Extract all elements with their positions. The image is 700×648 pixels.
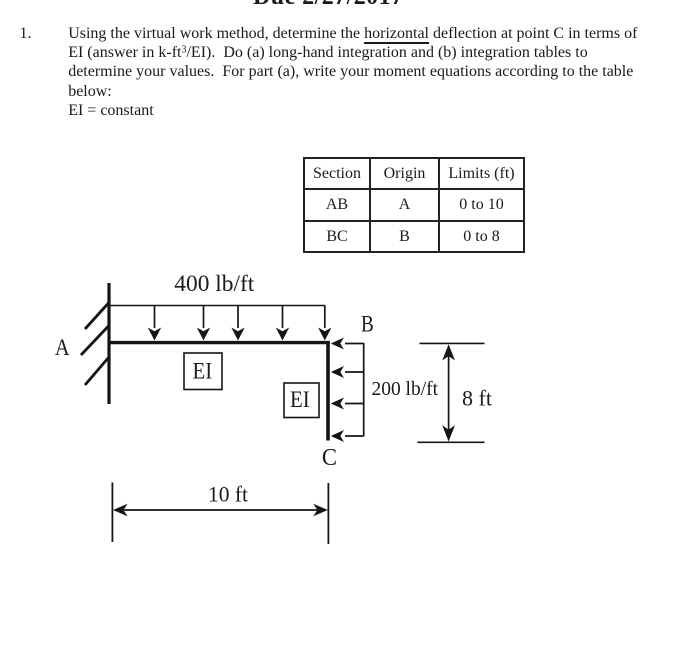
label 200 lb/ft — [372, 378, 439, 400]
load arrow 1 — [148, 306, 161, 341]
svg-text:200 lb/ft: 200 lb/ft — [372, 378, 439, 400]
load arrow 5 — [318, 306, 331, 341]
label 400 lb/ft — [174, 271, 255, 296]
side load arrow 2 — [331, 366, 364, 378]
EI box 1 — [184, 353, 222, 390]
side load arrow 1 — [331, 338, 364, 350]
svg-text:A: A — [55, 335, 70, 360]
svg-text:8 ft: 8 ft — [462, 386, 492, 411]
svg-text:10 ft: 10 ft — [208, 482, 248, 507]
svg-text:EI: EI — [290, 387, 310, 412]
10 ft dim right tick — [327, 483, 329, 544]
svg-text:400 lb/ft: 400 lb/ft — [174, 271, 255, 296]
load arrow 2 — [197, 306, 210, 341]
label A — [55, 335, 70, 360]
label 8 ft — [462, 386, 492, 411]
problem statement paragraph — [68, 24, 637, 120]
table of sections/origins/limits — [303, 157, 525, 253]
svg-text:EI: EI — [193, 359, 213, 384]
label B — [361, 311, 374, 336]
wall hatch 2 — [81, 326, 109, 355]
svg-text:C: C — [322, 445, 337, 471]
load arrow 4 — [276, 306, 289, 341]
8 ft dim arrow line — [442, 344, 455, 441]
side load arrow 4 — [331, 430, 364, 442]
label C — [322, 445, 337, 471]
EI box 2 — [284, 383, 319, 418]
10 ft dim left tick — [111, 483, 113, 543]
load arrow 3 — [231, 306, 244, 341]
label 10 ft — [208, 482, 248, 507]
side load right line — [363, 343, 365, 436]
distributed load top line — [109, 305, 325, 307]
svg-text:B: B — [361, 311, 374, 336]
8 ft dim bottom tick — [418, 441, 485, 443]
side load arrow 3 — [331, 398, 364, 410]
8 ft dim top tick — [420, 342, 485, 344]
cut-off bold header "Due 2/27/2017" — [253, 0, 404, 11]
wall hatch 1 — [85, 303, 109, 329]
wall hatch 3 — [85, 357, 109, 385]
label EI 2 — [290, 387, 310, 412]
beam AB — [108, 341, 330, 344]
10 ft dim arrow line — [113, 504, 328, 516]
item number 1. — [20, 24, 32, 43]
member BC — [326, 341, 330, 441]
label EI 1 — [193, 359, 213, 384]
fixed support wall at A — [107, 283, 110, 404]
